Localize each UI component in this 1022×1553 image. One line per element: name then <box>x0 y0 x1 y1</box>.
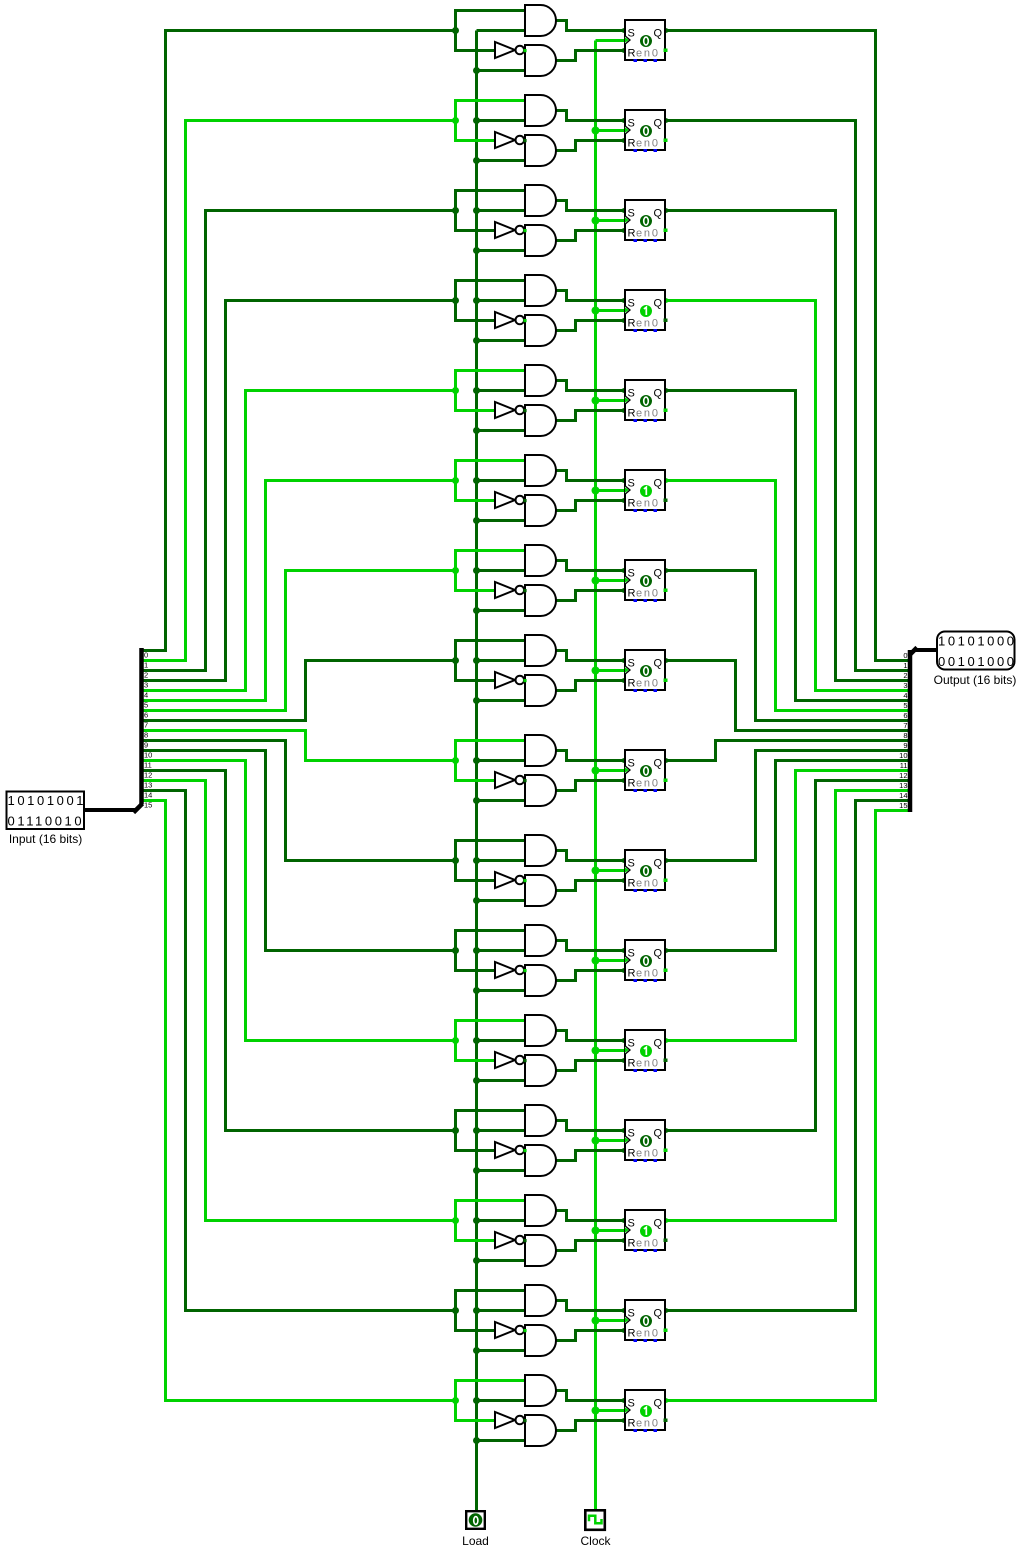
svg-text:11: 11 <box>900 761 908 770</box>
svg-text:Q: Q <box>654 208 663 220</box>
svg-text:1: 1 <box>144 661 148 670</box>
svg-text:R: R <box>628 408 636 420</box>
svg-text:13: 13 <box>144 781 152 790</box>
svg-text:R: R <box>628 588 636 600</box>
svg-text:S: S <box>628 298 635 310</box>
svg-text:Q: Q <box>654 568 663 580</box>
svg-text:R: R <box>628 1418 636 1430</box>
svg-text:5: 5 <box>903 701 907 710</box>
svg-text:1: 1 <box>903 661 907 670</box>
svg-text:en0: en0 <box>636 678 660 690</box>
svg-text:S: S <box>628 208 635 220</box>
svg-text:S: S <box>628 388 635 400</box>
svg-text:S: S <box>628 1128 635 1140</box>
svg-text:S: S <box>628 758 635 770</box>
svg-text:3: 3 <box>144 681 148 690</box>
svg-text:12: 12 <box>144 771 152 780</box>
svg-text:S: S <box>628 118 635 130</box>
svg-text:10101001: 10101001 <box>8 793 87 808</box>
svg-text:Q: Q <box>654 118 663 130</box>
svg-text:Q: Q <box>654 1128 663 1140</box>
svg-text:S: S <box>628 28 635 40</box>
svg-text:10: 10 <box>144 751 152 760</box>
svg-text:en0: en0 <box>636 1418 660 1430</box>
svg-text:S: S <box>628 1218 635 1230</box>
svg-text:12: 12 <box>899 771 907 780</box>
svg-text:2: 2 <box>144 671 148 680</box>
svg-text:4: 4 <box>144 691 148 700</box>
svg-text:S: S <box>628 568 635 580</box>
svg-text:4: 4 <box>903 691 907 700</box>
svg-text:en0: en0 <box>636 1058 660 1070</box>
svg-text:6: 6 <box>144 711 148 720</box>
svg-text:en0: en0 <box>636 968 660 980</box>
svg-text:9: 9 <box>903 741 907 750</box>
svg-text:S: S <box>628 1038 635 1050</box>
svg-text:S: S <box>628 478 635 490</box>
svg-text:R: R <box>628 138 636 150</box>
svg-text:Q: Q <box>654 948 663 960</box>
svg-text:en0: en0 <box>636 588 660 600</box>
svg-text:01110010: 01110010 <box>8 813 85 828</box>
svg-text:13: 13 <box>899 781 907 790</box>
svg-text:14: 14 <box>144 791 152 800</box>
svg-text:Load: Load <box>462 1534 489 1548</box>
svg-text:Q: Q <box>654 28 663 40</box>
svg-text:en0: en0 <box>636 228 660 240</box>
svg-text:Q: Q <box>654 388 663 400</box>
svg-text:en0: en0 <box>636 138 660 150</box>
svg-text:R: R <box>628 228 636 240</box>
svg-text:S: S <box>628 1308 635 1320</box>
svg-text:Q: Q <box>654 858 663 870</box>
svg-text:R: R <box>628 1238 636 1250</box>
svg-text:5: 5 <box>144 701 148 710</box>
svg-text:6: 6 <box>903 711 907 720</box>
svg-text:en0: en0 <box>636 318 660 330</box>
svg-text:14: 14 <box>899 791 907 800</box>
svg-text:R: R <box>628 778 636 790</box>
svg-text:R: R <box>628 1148 636 1160</box>
svg-text:15: 15 <box>144 801 152 810</box>
svg-text:en0: en0 <box>636 498 660 510</box>
svg-text:en0: en0 <box>636 878 660 890</box>
svg-text:en0: en0 <box>636 1148 660 1160</box>
svg-text:11: 11 <box>144 761 152 770</box>
svg-text:R: R <box>628 498 636 510</box>
svg-text:8: 8 <box>903 731 907 740</box>
svg-text:Q: Q <box>654 478 663 490</box>
svg-text:S: S <box>628 948 635 960</box>
svg-text:0: 0 <box>144 651 148 660</box>
svg-text:15: 15 <box>899 801 907 810</box>
svg-text:R: R <box>628 48 636 60</box>
svg-text:S: S <box>628 1398 635 1410</box>
svg-text:10101000: 10101000 <box>938 633 1017 648</box>
svg-text:10: 10 <box>899 751 907 760</box>
svg-text:R: R <box>628 1328 636 1340</box>
svg-text:8: 8 <box>144 731 148 740</box>
svg-text:Q: Q <box>654 1038 663 1050</box>
svg-text:Q: Q <box>654 1218 663 1230</box>
svg-text:3: 3 <box>903 681 907 690</box>
svg-text:en0: en0 <box>636 408 660 420</box>
svg-text:S: S <box>628 658 635 670</box>
svg-text:Input (16 bits): Input (16 bits) <box>9 832 82 846</box>
svg-text:00101000: 00101000 <box>938 654 1017 669</box>
svg-text:en0: en0 <box>636 778 660 790</box>
svg-text:en0: en0 <box>636 48 660 60</box>
svg-text:R: R <box>628 968 636 980</box>
svg-text:7: 7 <box>144 721 148 730</box>
svg-text:Clock: Clock <box>580 1534 611 1548</box>
svg-text:Q: Q <box>654 1398 663 1410</box>
svg-text:S: S <box>628 858 635 870</box>
svg-text:Output (16 bits): Output (16 bits) <box>934 673 1017 687</box>
svg-text:R: R <box>628 878 636 890</box>
svg-text:en0: en0 <box>636 1328 660 1340</box>
svg-text:Q: Q <box>654 1308 663 1320</box>
svg-text:en0: en0 <box>636 1238 660 1250</box>
svg-text:Q: Q <box>654 758 663 770</box>
svg-text:R: R <box>628 318 636 330</box>
svg-text:7: 7 <box>903 721 907 730</box>
svg-text:9: 9 <box>144 741 148 750</box>
svg-text:Q: Q <box>654 298 663 310</box>
svg-text:0: 0 <box>903 651 907 660</box>
svg-text:Q: Q <box>654 658 663 670</box>
svg-text:R: R <box>628 678 636 690</box>
svg-text:2: 2 <box>903 671 907 680</box>
svg-text:R: R <box>628 1058 636 1070</box>
